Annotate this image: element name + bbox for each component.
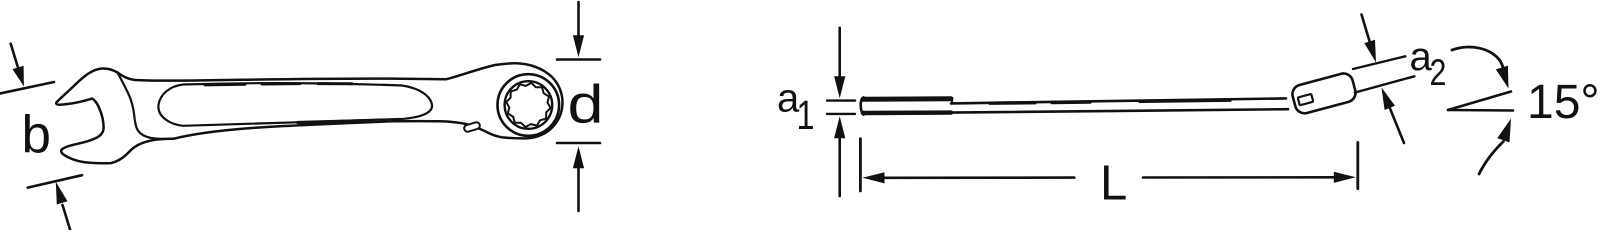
- side view: ring boss upper line: [1353, 56, 1405, 69]
- side view: shank top edge: [951, 98, 1286, 103]
- label a1: [777, 77, 815, 138]
- dimension line L: left tick: [859, 139, 862, 191]
- side view: ratchet head (rounded rect, 15deg): [1290, 71, 1357, 115]
- jaw root diagonal line (throat to shank bottom): [118, 73, 174, 139]
- dimension arrow a2 top: [1362, 15, 1377, 63]
- dimension arrow d top: [573, 2, 584, 57]
- svg-text:15°: 15°: [1527, 76, 1600, 129]
- heavy ink dashes on panel top: [205, 84, 352, 85]
- dimension line L: right line and arrow: [1143, 172, 1356, 183]
- dimension arrow d bottom: [573, 146, 584, 211]
- 15 degree wedge lower line: [1448, 109, 1513, 112]
- svg-text:2: 2: [1430, 52, 1447, 94]
- dimension arrow a2 bottom: [1382, 88, 1405, 144]
- side view: open-end head segment (thick): [861, 97, 951, 114]
- 12-point socket profile: [506, 83, 550, 127]
- svg-text:d: d: [568, 73, 604, 134]
- tick line d top: [557, 58, 600, 61]
- tick line a1 top: [827, 99, 855, 101]
- dimension arrow b bottom: [56, 182, 70, 230]
- tick line d bottom: [557, 142, 600, 145]
- dimension arrow a1 bottom: [834, 116, 845, 196]
- dimension arrow a1 top: [834, 28, 845, 98]
- heavy dashes on shank top: [990, 100, 1230, 103]
- wrench body outline (open jaw, shank, ring head): [56, 63, 562, 163]
- tick line a1 bottom: [827, 113, 855, 115]
- svg-text:b: b: [22, 106, 51, 165]
- ring outer circle: [498, 74, 560, 136]
- dimension line L: right tick: [1356, 142, 1359, 188]
- curved arrow upper: [1452, 47, 1509, 88]
- side view: shank bottom edge: [951, 109, 1288, 112]
- heavy ink dash on panel bottom: [298, 121, 372, 123]
- side view: step between head and shank: [952, 99, 953, 104]
- tick line b top: [0, 82, 54, 94]
- ratchet lever nub: [463, 121, 480, 132]
- curved arrow lower: [1479, 119, 1511, 175]
- side view: ring boss lower line: [1355, 76, 1415, 92]
- dimension arrow b top: [11, 44, 24, 87]
- ring inner circle: [505, 81, 553, 129]
- svg-text:L: L: [1100, 157, 1127, 211]
- dimension line L: left arrow and line: [863, 172, 1075, 183]
- svg-text:1: 1: [797, 92, 815, 137]
- shank recessed panel (stadium): [158, 83, 432, 126]
- tick line b bottom: [28, 175, 82, 187]
- side view: head slot detail: [1298, 94, 1314, 105]
- 15 degree wedge upper line: [1448, 92, 1511, 111]
- label a2: [1410, 35, 1447, 94]
